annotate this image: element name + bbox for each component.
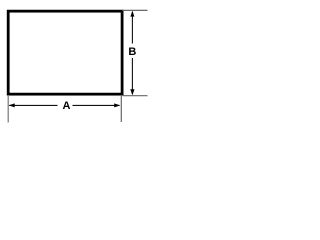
dimension line A (horizontal) [9,104,57,106]
arrowhead B bottom [130,89,134,95]
extension line bottom right vertical [120,96,122,122]
dimension line B (vertical) [131,12,133,44]
arrowhead A right [114,103,120,107]
extension line bottom right horizontal [123,95,148,97]
arrowhead A left [9,103,15,107]
rectangle outline [8,11,122,94]
extension line top right [122,9,148,11]
svg-text:B: B [128,46,136,58]
extension line bottom left vertical [7,96,9,123]
arrowhead B top [130,11,134,17]
svg-text:A: A [63,100,71,112]
